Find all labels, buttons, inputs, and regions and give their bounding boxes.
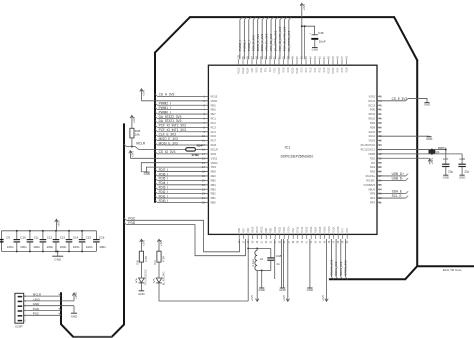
svg-text:FDI4_I: FDI4_I (159, 181, 169, 185)
svg-text:RB8: RB8 (265, 228, 268, 233)
svg-text:RF4: RF4 (342, 228, 345, 233)
svg-text:RD6: RD6 (346, 67, 349, 73)
net label MISO_E_3V3 flag on bus (155, 138, 157, 140)
wire R35 to LED (140, 262, 142, 278)
net bus left vertical (pins 1-25 labels attach) (154, 52, 156, 203)
wire net DA_STAT1_3V3 to IC1 pin 7 (157, 122, 208, 124)
svg-text:RE9: RE9 (211, 174, 217, 178)
svg-text:28: 28 (247, 240, 250, 243)
net label FDI4_I flag on bus (155, 182, 157, 184)
module outline right vertical (416, 60, 418, 266)
capacitor C10 100n (29, 231, 31, 240)
svg-text:C11: C11 (34, 235, 39, 239)
wire PGC from ICSP bus to IC1 pin 26 (124, 218, 126, 220)
svg-text:1n: 1n (276, 262, 280, 266)
svg-text:SCL_E: SCL_E (392, 194, 402, 198)
svg-text:RE6: RE6 (211, 108, 217, 112)
wire net CS_H_3V3 to IC1 pin 1 (157, 95, 208, 97)
svg-text:+3V3: +3V3 (33, 297, 40, 301)
resistor R34 470R in series with pin 14 (186, 148, 196, 151)
wire net SCK_E_3V3 from top bus to IC pin (252, 20, 254, 60)
svg-text:6: 6 (25, 319, 27, 322)
svg-text:RD12: RD12 (328, 67, 331, 74)
svg-text:DA_STAT1_3V3: DA_STAT1_3V3 (159, 119, 182, 123)
svg-text:CS_E_3V3: CS_E_3V3 (392, 97, 408, 101)
wire ICSP pin 2 +3V3 (24, 300, 74, 302)
svg-text:RD2: RD2 (319, 67, 322, 73)
svg-text:PCF_IO_INT2_2V2: PCF_IO_INT2_2V2 (283, 26, 287, 51)
svg-text:RA2: RA2 (370, 170, 376, 174)
svg-text:MISO_E_3V3: MISO_E_3V3 (159, 137, 178, 141)
svg-text:RF12: RF12 (301, 226, 304, 233)
wire L3 bottom to +2V5 arrow (256, 270, 258, 297)
node filter top junction (247, 247, 249, 249)
wire net FDI6_I to IC1 pin 19 (157, 175, 208, 177)
net label DA_STAT2_3V3 flag on bus (155, 116, 157, 118)
svg-text:RB12: RB12 (306, 226, 309, 233)
svg-text:22p: 22p (464, 169, 469, 173)
svg-text:RD4: RD4 (337, 67, 340, 73)
svg-text:39: 39 (297, 240, 300, 243)
svg-text:+3V3: +3V3 (57, 220, 61, 227)
svg-text:100n: 100n (47, 245, 54, 249)
svg-text:BL-B2134G: BL-B2134G (161, 272, 165, 286)
capacitor C9 100n (16, 231, 18, 240)
svg-text:RA3: RA3 (370, 165, 376, 169)
svg-text:85: 85 (305, 56, 308, 59)
svg-text:VSS2: VSS2 (211, 156, 218, 160)
wire SDA_E from IC1 pin 53 (377, 193, 406, 195)
svg-text:RF0: RF0 (269, 67, 272, 72)
svg-text:+3V3: +3V3 (302, 4, 306, 11)
wire net PCF_IO_INT1_2V2 from top bus to IC pin (279, 20, 281, 60)
svg-text:+2V5: +2V5 (282, 295, 286, 302)
svg-text:C16: C16 (99, 235, 105, 239)
module outline right exit to ECU TR Core (417, 265, 474, 267)
wire ICSP pin 1 MCLR (24, 295, 61, 297)
wire IC1 pin 66 to ground (377, 136, 429, 137)
svg-text:22p: 22p (448, 169, 453, 173)
svg-text:IC1: IC1 (285, 146, 291, 150)
svg-text:RA14: RA14 (369, 134, 376, 138)
svg-text:L3: L3 (260, 257, 264, 261)
power +3V3 arrow for R37 (157, 239, 160, 251)
svg-text:RD10: RD10 (368, 117, 375, 121)
svg-text:R34: R34 (197, 143, 203, 147)
svg-text:FDI5_I: FDI5_I (159, 177, 169, 181)
svg-text:RG13: RG13 (238, 67, 241, 74)
svg-text:2: 2 (25, 300, 27, 303)
svg-text:RC14: RC14 (368, 99, 375, 103)
svg-text:PWM2_I: PWM2_I (247, 40, 251, 51)
svg-text:RE8: RE8 (211, 170, 217, 174)
capacitor C48 1n bypass (270, 248, 272, 257)
svg-text:48: 48 (337, 240, 340, 243)
svg-text:10uF: 10uF (319, 39, 326, 43)
wire filter top node (248, 247, 271, 249)
wire net PCF_IO_INT2_3V3 to IC1 pin 8 (157, 126, 208, 128)
net label MCLR flag on ICSP bus (124, 144, 126, 146)
svg-text:UTX_E1_3V3: UTX_E1_3V3 (269, 33, 273, 51)
svg-text:VSS3: VSS3 (368, 139, 375, 143)
wire net FDI0_I to IC1 pin 25 (157, 201, 208, 203)
svg-text:42: 42 (310, 240, 313, 243)
IC1 top pin stubs with numbers and names (238, 59, 240, 65)
power +3V3 arrow for IC1 pin 2 (VDD1) (140, 89, 143, 101)
svg-text:41: 41 (306, 240, 309, 243)
svg-text:100n: 100n (60, 245, 67, 249)
svg-text:RD11: RD11 (296, 67, 299, 74)
svg-text:DA_STAT1_2V2: DA_STAT1_2V2 (274, 30, 278, 51)
module outline top-left chamfer (155, 17, 191, 53)
svg-text:33: 33 (270, 240, 273, 243)
svg-text:VSS1: VSS1 (368, 94, 375, 98)
svg-text:VDD6: VDD6 (368, 152, 375, 156)
wire R37 to LED (158, 262, 160, 278)
capacitor bank rail bottom (1, 250, 96, 252)
svg-text:PWM1_I: PWM1_I (242, 40, 246, 51)
wire net SCK1_2V2 to bottom bus (335, 239, 337, 277)
ground LED1 (139, 290, 145, 292)
svg-text:470R: 470R (144, 256, 148, 262)
svg-text:GCLK1_2V2: GCLK1_2V2 (330, 259, 334, 275)
wire net PWM0_I to IC1 pin 5 (157, 113, 208, 115)
svg-text:+3V3: +3V3 (159, 239, 163, 246)
svg-text:80: 80 (328, 56, 331, 59)
svg-text:30: 30 (256, 240, 259, 243)
capacitor C13 100n (68, 231, 70, 240)
svg-text:46: 46 (328, 240, 331, 243)
wire branch to C46 (302, 26, 315, 34)
ICSP bus vertical left segment (60, 292, 62, 325)
svg-text:PCF_IO_INT2_3V3: PCF_IO_INT2_3V3 (159, 124, 186, 128)
ground symbol left of IC1 (141, 171, 146, 173)
wire R36 to MCLR node (131, 138, 133, 147)
svg-text:PWM0_I: PWM0_I (159, 110, 171, 114)
svg-text:76: 76 (346, 56, 349, 59)
net label DA_STAT1_3V3 flag on bus (155, 121, 157, 123)
svg-text:SDA1_2V2: SDA1_2V2 (339, 261, 343, 275)
svg-text:+3V3: +3V3 (132, 116, 136, 123)
svg-text:Q1: Q1 (436, 150, 440, 154)
svg-text:MISO_E_3V3: MISO_E_3V3 (256, 33, 260, 51)
svg-text:RC3: RC3 (211, 125, 217, 129)
wire AVDD pin down (274, 239, 276, 279)
wire net PWM2_I from top bus to IC pin (248, 20, 250, 60)
svg-text:100n: 100n (7, 245, 14, 249)
svg-text:SCK1_2V2: SCK1_2V2 (334, 261, 338, 275)
svg-text:ECU TR Core: ECU TR Core (443, 268, 462, 272)
svg-text:RD10: RD10 (292, 67, 295, 74)
svg-text:VDD1: VDD1 (211, 99, 218, 103)
wire net GCLK1_2V2 to bottom bus (330, 239, 332, 277)
svg-text:RG14: RG14 (247, 67, 250, 74)
wire MCLR to IC1 pin 13 (126, 147, 185, 150)
inductor L3 4.7uH (255, 250, 257, 270)
svg-text:C10: C10 (20, 235, 26, 239)
wire filter bottom node (257, 269, 271, 271)
svg-text:PWM2_I: PWM2_I (159, 102, 171, 106)
svg-text:RB13: RB13 (310, 226, 313, 233)
svg-text:RD0: RD0 (301, 67, 304, 73)
wire CS_IO_3V3 to IC1 pin 14 (157, 153, 208, 155)
connector ICSP body (15, 293, 24, 323)
ground for CS_E net (425, 102, 430, 104)
svg-text:MOSI_E_3V3: MOSI_E_3V3 (159, 141, 178, 145)
svg-text:RA10: RA10 (252, 226, 255, 233)
ground below filter (259, 287, 264, 289)
svg-text:ICSP: ICSP (15, 324, 22, 328)
svg-text:RC4: RC4 (211, 130, 217, 134)
net bus bottom horizontal (bottom pin labels attach) (329, 278, 406, 280)
svg-text:49: 49 (342, 240, 345, 243)
svg-text:87: 87 (296, 56, 299, 59)
svg-text:C47: C47 (443, 157, 449, 161)
ICSP bus bottom horizontal (73, 336, 113, 338)
svg-text:88: 88 (292, 56, 295, 59)
svg-text:+3V3: +3V3 (131, 151, 135, 158)
resistor R35 470R (139, 251, 143, 262)
svg-text:RG8: RG8 (211, 143, 217, 147)
svg-text:RB15: RB15 (319, 226, 322, 233)
svg-text:PWM0_I: PWM0_I (238, 40, 242, 51)
svg-text:C14: C14 (73, 235, 79, 239)
ground C47 (443, 174, 448, 176)
wire C47 to ground (445, 167, 447, 175)
svg-text:RC2: RC2 (211, 121, 217, 125)
svg-text:RB0: RB0 (211, 201, 217, 205)
svg-text:VDD: VDD (274, 67, 277, 72)
svg-text:PWM1_I: PWM1_I (159, 106, 171, 110)
wire net GPIO1_2V2 to bottom bus (345, 239, 347, 277)
IC1 bottom pin stubs with numbers and names (238, 234, 240, 239)
svg-text:32: 32 (265, 240, 268, 243)
svg-text:URX_E1_3V3: URX_E1_3V3 (265, 33, 269, 51)
net label CLK_E_3V3 flag on bus (155, 134, 157, 136)
svg-text:C9: C9 (6, 235, 10, 239)
svg-text:RB2: RB2 (211, 192, 217, 196)
svg-text:RD8: RD8 (370, 125, 376, 129)
wire cap bank to ground (57, 251, 59, 256)
capacitor bank supply rail top (1, 230, 96, 232)
svg-text:SDA_E: SDA_E (392, 190, 402, 194)
svg-text:GND: GND (144, 172, 150, 176)
svg-text:RA1: RA1 (292, 228, 295, 233)
svg-text:VDD5: VDD5 (328, 226, 331, 233)
op-amp U1 — actually microcontroller IC1 body (208, 65, 377, 234)
wire R34 to IC1 pin 13 (196, 148, 209, 150)
svg-text:RD13: RD13 (332, 67, 335, 74)
svg-text:MCLR: MCLR (211, 147, 218, 151)
wire net UTX_E1_3V3 from top bus to IC pin (270, 20, 272, 60)
wire C46 to ground (314, 40, 316, 47)
svg-text:GND: GND (307, 288, 313, 292)
power +2V5 arrow down (256, 298, 259, 302)
net label FDI0_I flag on bus (155, 200, 157, 202)
svg-text:RA9: RA9 (247, 228, 250, 233)
svg-text:VSS5: VSS5 (324, 226, 327, 233)
svg-text:VSS4: VSS4 (283, 226, 286, 233)
svg-text:VBUS: VBUS (368, 187, 375, 191)
svg-text:RB14: RB14 (315, 226, 318, 233)
svg-text:GND: GND (33, 302, 39, 306)
svg-text:81: 81 (323, 56, 326, 59)
node filter bottom junction (261, 269, 263, 271)
wire VSS pin to ground C (309, 239, 311, 288)
svg-text:470R: 470R (192, 153, 200, 157)
svg-text:GND: GND (279, 288, 285, 292)
svg-text:MCLR: MCLR (33, 293, 41, 297)
wire net DA_STAT2_2V2 from top bus to IC pin (288, 20, 290, 60)
ground C46 (312, 47, 318, 49)
wire net FDI2_I to IC1 pin 23 (157, 193, 208, 195)
capacitor bank left end riser (0, 231, 2, 252)
wire second VDD riser (304, 26, 306, 59)
svg-text:+2V5: +2V5 (250, 295, 254, 302)
node MCLR junction (131, 146, 133, 148)
svg-text:DA_STAT2_2V2: DA_STAT2_2V2 (287, 30, 291, 51)
wire C48 to ground (461, 167, 463, 175)
svg-text:29: 29 (252, 240, 255, 243)
svg-text:+3V3: +3V3 (430, 158, 434, 165)
svg-text:44: 44 (319, 240, 322, 243)
svg-text:TDI: TDI (371, 161, 375, 165)
wire ICSP GND down (73, 306, 75, 313)
svg-text:R35: R35 (136, 259, 140, 264)
svg-text:5: 5 (25, 314, 27, 317)
ground ICSP (71, 312, 77, 314)
net label FDI2_I flag on bus (155, 191, 157, 193)
svg-text:RE7: RE7 (211, 112, 217, 116)
wire +3V3 to pin 15 (130, 157, 208, 159)
svg-text:+2V5: +2V5 (321, 295, 325, 302)
wire net PWM0_I from top bus to IC pin (239, 20, 241, 60)
ground B below IC (280, 287, 285, 289)
svg-text:RD11: RD11 (369, 112, 376, 116)
svg-text:GND: GND (258, 288, 264, 292)
node OSC1 junction (431, 153, 433, 155)
wire VSS pins to ground B (280, 239, 282, 288)
svg-text:RG12: RG12 (242, 67, 245, 74)
svg-text:RF2: RF2 (370, 196, 375, 200)
svg-text:+3V3: +3V3 (74, 292, 78, 299)
svg-text:USB_D-: USB_D- (392, 176, 404, 180)
svg-text:VUSB3V3: VUSB3V3 (363, 183, 375, 187)
svg-text:VDD4: VDD4 (288, 226, 291, 233)
svg-text:R37: R37 (153, 259, 157, 264)
svg-text:PCF_IO_INT1_2V2: PCF_IO_INT1_2V2 (278, 26, 282, 51)
svg-text:C15: C15 (86, 235, 92, 239)
svg-text:VDD2: VDD2 (211, 161, 218, 165)
svg-text:RD3: RD3 (323, 67, 326, 73)
svg-text:+: + (309, 32, 311, 35)
svg-text:FDI3_I: FDI3_I (159, 186, 169, 190)
net label PWM1_I flag on bus (155, 107, 157, 109)
wire VDD pin to +2V5 arrow C (326, 239, 328, 298)
wire net PCF_IO_INT2_2V2 from top bus to IC pin (283, 20, 285, 60)
svg-text:GND: GND (443, 175, 449, 179)
svg-text:RB3: RB3 (211, 187, 217, 191)
wire LED2 to +2V5 net (159, 283, 248, 301)
svg-text:MCLR: MCLR (136, 142, 146, 146)
node +3V3/C46 junction (301, 25, 303, 27)
svg-text:GND: GND (138, 292, 144, 296)
svg-text:RC13: RC13 (368, 103, 375, 107)
module outline top edge (190, 16, 395, 18)
svg-text:RF13: RF13 (297, 226, 300, 233)
wire net FDI4_I to IC1 pin 21 (157, 184, 208, 186)
wire to GND below filter (261, 270, 263, 287)
svg-text:RG15: RG15 (211, 94, 218, 98)
svg-text:GND: GND (71, 314, 77, 318)
svg-text:C48: C48 (459, 157, 465, 161)
svg-text:RD15: RD15 (337, 226, 340, 233)
svg-text:100n: 100n (33, 245, 40, 249)
svg-text:RE5: RE5 (211, 103, 217, 107)
svg-text:C13: C13 (60, 235, 66, 239)
svg-text:79: 79 (332, 56, 335, 59)
wire IC1 pin 63 OSC2 to crystal (377, 148, 446, 150)
svg-text:4.7uH: 4.7uH (251, 259, 255, 266)
wire net MISO_E_3V3 to IC1 pin 11 (157, 140, 208, 142)
svg-text:100n: 100n (86, 245, 93, 249)
svg-text:FDI1_I: FDI1_I (159, 194, 169, 198)
connector ICSP pads (18, 296, 23, 298)
svg-text:RD9: RD9 (370, 121, 376, 125)
wire pin 17 to GND (146, 167, 208, 172)
wire IC1 pin 62 OSC1 to crystal (377, 153, 462, 155)
capacitor C11 100n (42, 231, 44, 240)
svg-text:CS_H_3V3: CS_H_3V3 (159, 93, 175, 97)
wire ICSP pin 3 GND (24, 305, 74, 307)
svg-text:+3V3: +3V3 (142, 89, 146, 96)
wire net PCF_IO_INT1_3V3 to IC1 pin 9 (157, 131, 208, 133)
svg-text:RA15: RA15 (369, 130, 376, 134)
svg-text:FDI2_I: FDI2_I (159, 190, 169, 194)
svg-text:RF5: RF5 (346, 228, 349, 233)
svg-text:91: 91 (278, 56, 281, 59)
svg-text:TDO: TDO (370, 156, 375, 160)
capacitor C47 22p (442, 163, 449, 165)
svg-text:GND: GND (426, 137, 432, 141)
net label FDI3_I flag on bus (155, 187, 157, 189)
wire PGD from ICSP bus to IC1 pin 27 (124, 222, 126, 224)
svg-text:38: 38 (292, 240, 295, 243)
svg-text:RB5: RB5 (211, 178, 217, 182)
svg-text:100n: 100n (73, 245, 80, 249)
wire ICSP pin 4 PGD (24, 310, 61, 312)
resistor R37 470R (157, 251, 161, 262)
net label FDI6_I flag on bus (155, 174, 157, 176)
svg-text:RF3: RF3 (370, 201, 375, 205)
svg-text:DSPIC33EP256MU810: DSPIC33EP256MU810 (281, 154, 314, 158)
wire net URX_E1_3V3 from top bus to IC pin (266, 20, 268, 60)
wire net CLK_E_3V3 to IC1 pin 10 (157, 135, 208, 137)
svg-text:RB4: RB4 (211, 183, 217, 187)
svg-text:RD14: RD14 (333, 226, 336, 233)
svg-text:RG6: RG6 (211, 134, 217, 138)
wire net FDI1_I to IC1 pin 24 (157, 197, 208, 199)
svg-text:GPIO1_2V2: GPIO1_2V2 (344, 260, 348, 276)
wire +3V3 down to IC VDD pin (301, 10, 303, 59)
svg-text:MOSI_E_3V3: MOSI_E_3V3 (260, 33, 264, 51)
wire VDD pin to +2V5 arrow B (287, 239, 289, 298)
wire net SDA1_2V2 to bottom bus (340, 239, 342, 277)
net label FDI1_I flag on bus (155, 196, 157, 198)
svg-text:RB9: RB9 (270, 228, 273, 233)
svg-text:RB6: RB6 (238, 228, 241, 233)
svg-text:C48: C48 (276, 254, 282, 258)
